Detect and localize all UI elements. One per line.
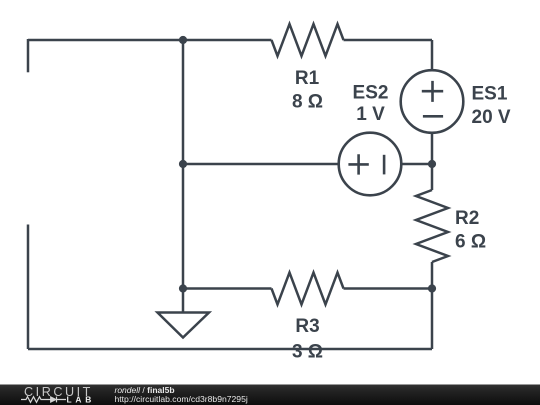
CircuitLab logo squiggle and diode (21, 397, 66, 403)
wire left top stub (27, 39, 30, 72)
svg-text:20 V: 20 V (472, 107, 511, 128)
svg-text:LAB: LAB (67, 394, 96, 404)
wire middle rail right of ES2 (401, 163, 432, 166)
node D junction dot middle right (428, 160, 436, 168)
svg-text:R3: R3 (295, 316, 319, 337)
voltage source ES2 (339, 133, 402, 196)
node E junction dot bottom right (428, 284, 436, 292)
node A junction dot top (179, 36, 187, 44)
voltage source ES1 (401, 70, 464, 133)
svg-text:ES1: ES1 (472, 84, 508, 105)
resistor R2 (416, 190, 448, 262)
wire top rail left of R1 (28, 39, 272, 42)
svg-text:8 Ω: 8 Ω (292, 92, 323, 113)
svg-text:6 Ω: 6 Ω (455, 232, 486, 253)
svg-text:ES2: ES2 (353, 82, 389, 103)
wire middle vertical (182, 40, 185, 313)
op ES1 minus sign (423, 115, 443, 118)
svg-text:http://circuitlab.com/cd3r8b9n: http://circuitlab.com/cd3r8b9n7295j (115, 394, 248, 404)
svg-text:1 V: 1 V (356, 104, 385, 125)
svg-text:R1: R1 (295, 68, 320, 89)
op ES1 plus sign (422, 81, 443, 102)
op ES2 minus bar (383, 155, 386, 175)
node C junction dot bottom left (179, 284, 187, 292)
node B junction dot middle left (179, 160, 187, 168)
wire left bottom segment (27, 225, 30, 350)
wire bottom rail (28, 348, 432, 351)
ground (158, 313, 210, 338)
resistor R1 (272, 24, 344, 56)
svg-text:R2: R2 (455, 208, 479, 229)
wire bottom rail left of R3 (183, 287, 272, 290)
wire right vertical ES1 to R2 (431, 133, 434, 190)
op ES2 plus sign (348, 154, 368, 174)
wire right vertical R2 to bottom (431, 262, 434, 349)
wire right vertical top (431, 40, 434, 70)
footer bar (0, 385, 540, 405)
wire middle rail left of ES2 (183, 163, 339, 166)
wire top rail right of R1 (344, 39, 433, 42)
svg-text:3 Ω: 3 Ω (292, 341, 323, 362)
wire bottom rail right of R3 (344, 287, 433, 290)
resistor R3 (272, 273, 344, 305)
